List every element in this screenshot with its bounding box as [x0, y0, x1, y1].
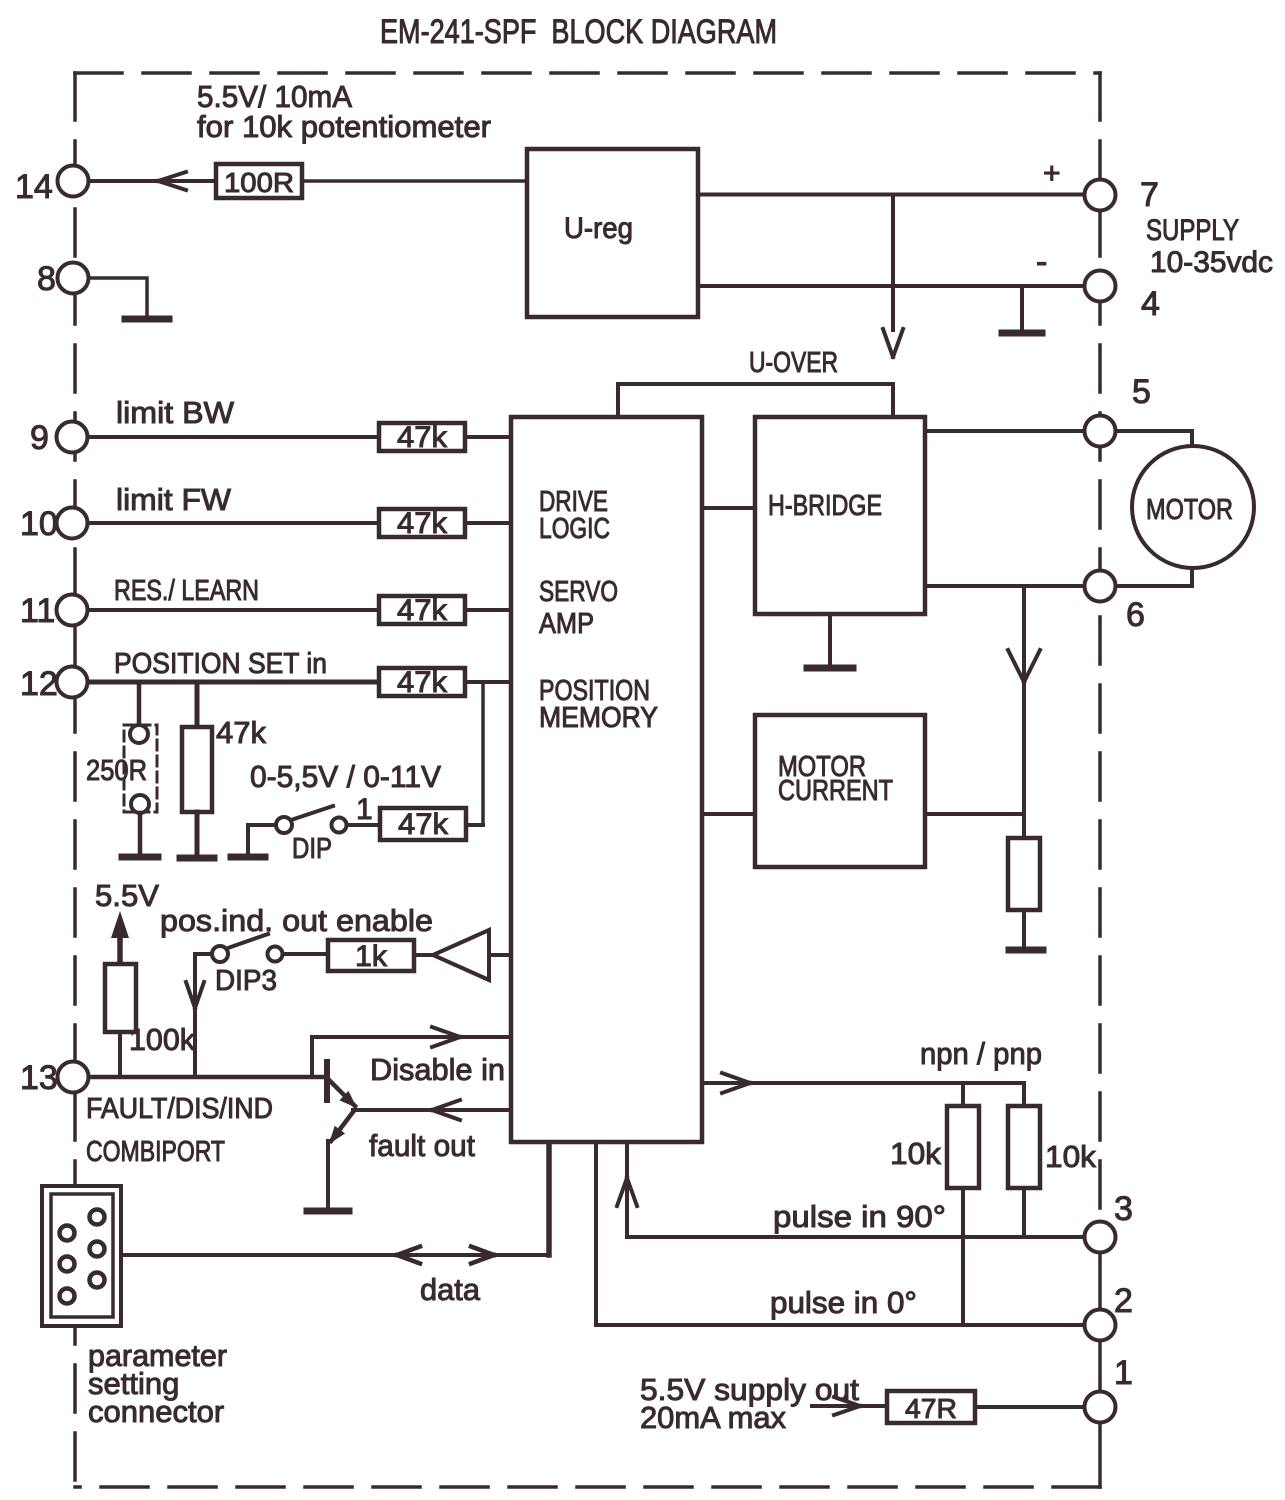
svg-text:14: 14 [15, 168, 53, 206]
svg-text:LOGIC: LOGIC [539, 513, 610, 545]
svg-text:MEMORY: MEMORY [539, 702, 658, 734]
svg-text:DIP: DIP [292, 833, 332, 865]
svg-text:11: 11 [20, 592, 55, 630]
svg-text:EM-241-SPF BLOCK DIAGRAM: EM-241-SPF BLOCK DIAGRAM [380, 13, 777, 51]
svg-text:47k: 47k [397, 666, 448, 699]
svg-text:47k: 47k [397, 507, 448, 540]
svg-text:5: 5 [1132, 373, 1151, 411]
svg-text:5.5V: 5.5V [95, 878, 159, 913]
svg-text:data: data [420, 1272, 481, 1307]
svg-text:2: 2 [1114, 1282, 1133, 1320]
svg-text:20mA max: 20mA max [640, 1400, 786, 1435]
svg-text:pos.ind. out enable: pos.ind. out enable [160, 903, 433, 938]
svg-text:FAULT/DIS/IND: FAULT/DIS/IND [86, 1093, 273, 1125]
svg-text:limit BW: limit BW [116, 395, 235, 430]
svg-text:U-reg: U-reg [564, 212, 633, 245]
svg-text:-: - [1036, 243, 1047, 281]
svg-text:pulse in 0°: pulse in 0° [770, 1285, 917, 1320]
svg-text:47R: 47R [905, 1393, 957, 1424]
svg-text:100R: 100R [224, 167, 294, 198]
svg-text:7: 7 [1140, 176, 1159, 214]
svg-text:limit FW: limit FW [116, 482, 232, 517]
svg-text:1: 1 [1114, 1354, 1133, 1392]
svg-text:12: 12 [20, 665, 58, 703]
svg-text:47k: 47k [216, 715, 266, 750]
svg-text:SERVO: SERVO [539, 576, 618, 608]
svg-text:100k: 100k [129, 1022, 195, 1057]
svg-text:13: 13 [20, 1059, 58, 1097]
svg-text:10k: 10k [1045, 1139, 1097, 1174]
svg-text:npn / pnp: npn / pnp [920, 1036, 1042, 1071]
svg-text:1k: 1k [355, 940, 388, 973]
svg-text:CURRENT: CURRENT [778, 775, 893, 807]
svg-text:1: 1 [356, 793, 373, 826]
svg-text:fault out: fault out [369, 1128, 475, 1163]
svg-text:9: 9 [30, 419, 49, 457]
svg-text:AMP: AMP [539, 608, 594, 640]
svg-text:6: 6 [1126, 596, 1145, 634]
svg-text:+: + [1043, 157, 1061, 190]
svg-text:47k: 47k [398, 808, 449, 841]
svg-text:4: 4 [1141, 285, 1160, 323]
svg-text:3: 3 [1114, 1190, 1133, 1228]
svg-text:SUPPLY: SUPPLY [1146, 214, 1239, 247]
svg-text:47k: 47k [397, 594, 448, 627]
svg-text:8: 8 [37, 260, 56, 298]
svg-text:47k: 47k [397, 421, 448, 454]
svg-text:POSITION SET in: POSITION SET in [114, 648, 327, 680]
svg-text:MOTOR: MOTOR [1146, 494, 1233, 526]
svg-text:250R: 250R [86, 755, 147, 787]
svg-text:DIP3: DIP3 [215, 965, 277, 997]
svg-text:10k: 10k [890, 1136, 942, 1171]
svg-text:pulse in 90°: pulse in 90° [773, 1199, 946, 1234]
svg-text:0-5,5V / 0-11V: 0-5,5V / 0-11V [250, 759, 441, 794]
svg-text:10-35vdc: 10-35vdc [1150, 246, 1273, 279]
svg-text:Disable in: Disable in [370, 1052, 505, 1087]
svg-text:U-OVER: U-OVER [749, 347, 838, 379]
svg-text:connector: connector [88, 1394, 224, 1429]
svg-text:for 10k potentiometer: for 10k potentiometer [197, 109, 491, 144]
svg-text:RES./ LEARN: RES./ LEARN [114, 575, 259, 607]
svg-text:H-BRIDGE: H-BRIDGE [768, 490, 882, 522]
svg-text:COMBIPORT: COMBIPORT [86, 1136, 225, 1168]
svg-text:10: 10 [20, 505, 58, 543]
